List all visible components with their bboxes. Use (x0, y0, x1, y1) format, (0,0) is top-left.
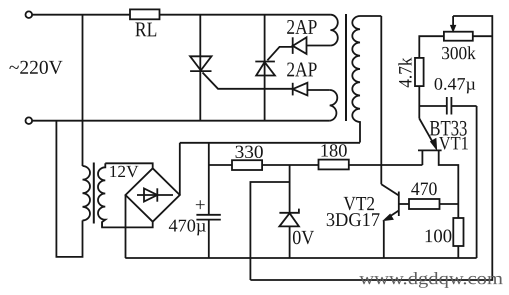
svg-text:180: 180 (320, 142, 348, 162)
thyristor SCR1 (190, 15, 293, 121)
svg-text:VT1: VT1 (439, 133, 469, 154)
unijunction transistor BT33 VT1 (418, 119, 458, 219)
wire node row 330/180 (209, 164, 423, 166)
wire T1 primary bottom return (56, 121, 82, 257)
svg-text:300k: 300k (441, 44, 476, 64)
pulse transformer B winding upper-left (330, 15, 337, 46)
svg-text:4.7k: 4.7k (396, 57, 417, 88)
capacitor 0.47u (419, 97, 476, 115)
svg-text:12V: 12V (109, 162, 140, 181)
capacitor 470u (196, 215, 220, 258)
pulse transformer B winding lower-left (330, 90, 338, 121)
resistor 180 (319, 160, 349, 170)
transistor VT2 3DG17 (381, 184, 399, 258)
bridge rectifier (126, 168, 180, 221)
svg-text:330: 330 (235, 143, 264, 163)
wire zener node to stabilized rail (250, 182, 289, 280)
svg-text:RL: RL (135, 17, 157, 41)
wire 470 right lead (440, 203, 459, 205)
svg-text:470µ: 470µ (168, 216, 206, 236)
resistor 330 (232, 160, 262, 170)
svg-text:3DG17: 3DG17 (326, 210, 380, 231)
svg-text:2AP: 2AP (286, 57, 317, 81)
wire pulse primary top to node (360, 15, 381, 17)
pulse transformer B core (345, 14, 347, 121)
resistor 470 (409, 199, 440, 209)
potentiometer 300k (419, 16, 492, 58)
svg-text:2AP: 2AP (286, 15, 317, 39)
terminal T1 (top mains input) (26, 11, 33, 18)
terminal T2 (bottom mains input) (26, 117, 33, 124)
wire bridge dc+ riser (179, 143, 181, 195)
transformer T1 secondary winding 12V (98, 163, 105, 227)
wire stabilized loop bottom/right/top (250, 16, 492, 280)
wire 0.47u right lead down (476, 106, 478, 258)
resistor 4.7k (415, 58, 424, 86)
resistor RL (130, 9, 160, 19)
wire bottom mains (32, 120, 329, 122)
thyristor SCR2 (255, 15, 292, 121)
wire bridge ac bottom jog (102, 222, 153, 228)
svg-text:100: 100 (424, 226, 452, 247)
diode 2AP (upper) (293, 37, 331, 54)
zener diode 0V (279, 209, 299, 258)
svg-text:www.dgdqw.com: www.dgdqw.com (359, 268, 503, 288)
wire zener cathode lead (289, 165, 291, 213)
wire 100 bottom lead (457, 246, 459, 258)
transformer T1 primary winding (83, 166, 91, 220)
wire transformer primary feed (crosses bottom mains at 120.7) (82, 15, 84, 166)
wire 12V secondary top lead (105, 163, 152, 168)
wire ground rail (125, 257, 476, 259)
wire 470 left lead (399, 203, 409, 205)
wire +12V rail (180, 142, 360, 144)
transformer T1 core (93, 163, 95, 224)
resistor 100 (453, 218, 463, 246)
wire 4.7k bottom / UJT emitter lead (418, 86, 420, 118)
wire bridge - lead (125, 195, 127, 258)
diode 2AP (lower) (293, 83, 330, 96)
wire pulse/VT2 collector vertical (380, 16, 382, 184)
svg-text:+: + (195, 195, 206, 216)
svg-text:~220V: ~220V (9, 58, 63, 79)
wire 470u top lead (208, 143, 210, 215)
svg-text:470: 470 (411, 179, 438, 200)
svg-text:0.47µ: 0.47µ (434, 74, 476, 94)
pulse transformer B right winding (352, 16, 360, 143)
svg-text:0V: 0V (292, 227, 315, 249)
wire top mains (32, 14, 330, 16)
